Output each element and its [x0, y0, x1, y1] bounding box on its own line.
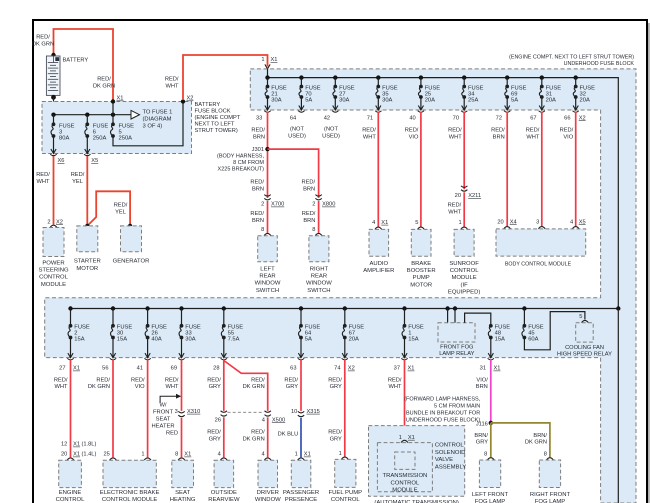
svg-text:1: 1 [141, 452, 144, 458]
connector X500 link line [228, 411, 265, 413]
svg-text:31: 31 [480, 366, 486, 372]
svg-text:X1: X1 [304, 452, 311, 458]
wire fuse 48 to exit [490, 338, 492, 357]
svg-text:X1: X1 [73, 442, 80, 448]
callout arrow W/ FRONT SEAT HEATER [160, 394, 181, 403]
svg-text:RED/BRN: RED/BRN [251, 128, 265, 141]
svg-text:RED/GRY: RED/GRY [328, 430, 342, 443]
connector entry right rear window switch [315, 233, 322, 235]
connector entry outside rearview mirror [220, 458, 227, 460]
connector entry left front fog lamp [487, 458, 494, 460]
svg-text:33: 33 [256, 115, 262, 121]
svg-text:RED/WHT: RED/WHT [54, 378, 68, 391]
svg-text:27: 27 [59, 366, 65, 372]
junction fuse 6 top on bus [85, 113, 89, 117]
svg-text:X1: X1 [184, 452, 191, 458]
svg-text:X5: X5 [91, 158, 98, 164]
fuse F33b (FUSE 33 30A) [179, 324, 183, 340]
wire X2 to underhood fuse block X1 (RED/WHT) [183, 55, 268, 100]
svg-text:X700: X700 [271, 202, 284, 208]
svg-text:RED/WHT: RED/WHT [448, 128, 462, 141]
svg-text:POWERSTEERINGCONTROLMODULE: POWERSTEERINGCONTROLMODULE [38, 260, 69, 288]
wire starter to generator branch (RED/YEL) [87, 191, 130, 226]
svg-text:70: 70 [453, 115, 459, 121]
wire pin 71 to audio amplifier (RED/WHT) [377, 112, 379, 227]
svg-text:20: 20 [61, 452, 67, 458]
connector entry right front fog lamp [547, 458, 554, 460]
svg-text:RED/VIO: RED/VIO [560, 128, 574, 141]
fuse F6 (FUSE 6 250A) [85, 122, 89, 138]
svg-text:FUEL PUMPCONTROLMODULE: FUEL PUMPCONTROLMODULE [329, 490, 363, 503]
svg-text:66: 66 [564, 115, 570, 121]
svg-text:71: 71 [367, 115, 373, 121]
svg-text:RED/WHT: RED/WHT [36, 172, 50, 185]
fuse F27 (FUSE 27 30A) [333, 85, 337, 99]
junction fuse 32 on top bus [574, 75, 578, 79]
fuse F45 (FUSE 45 60A) [522, 324, 526, 340]
connector entry fuel pump control module [341, 457, 348, 459]
svg-text:X211: X211 [468, 193, 481, 199]
right front fog lamp [539, 460, 560, 488]
svg-text:20: 20 [497, 219, 503, 225]
wire top bus of underhood fuse block [268, 78, 619, 309]
junction bottom bus to right band riser [616, 306, 620, 310]
wire pin 28 to X500 pin 26 (RED/GRY) [223, 359, 225, 411]
svg-text:(NOTUSED): (NOTUSED) [288, 127, 306, 140]
svg-text:PASSENGERPRESENCEMODULE: PASSENGERPRESENCEMODULE [283, 490, 319, 503]
junction fuse 33 on bottom bus [179, 306, 183, 310]
junction X1 on block edge [111, 99, 115, 103]
in-line connector X800 [315, 195, 321, 200]
svg-text:X310: X310 [187, 409, 200, 415]
svg-text:X2: X2 [56, 219, 63, 225]
wire X310 to seat heating module (RED) [181, 418, 183, 458]
wire X800 to right rear window switch (RED/BRN) [318, 201, 320, 233]
junction fuse 31 on top bus [540, 75, 544, 79]
svg-text:J116: J116 [476, 421, 488, 427]
svg-text:X1: X1 [73, 452, 80, 458]
wire fuse 5 to X2 (internal) [113, 102, 183, 146]
svg-text:X1: X1 [408, 366, 415, 372]
in-line connector X700 [264, 195, 270, 200]
connector entry sunroof control module [461, 227, 468, 229]
svg-text:RED/WHT: RED/WHT [526, 128, 540, 141]
wire fuse 25 leads [420, 78, 422, 87]
svg-text:RED/YEL: RED/YEL [114, 203, 128, 216]
connector exit under bottom fuse 26 [144, 353, 150, 360]
svg-text:RED/WHT: RED/WHT [165, 77, 179, 90]
svg-text:J301: J301 [252, 147, 264, 153]
battery fuse block enclosure [42, 102, 192, 154]
engine control module [59, 460, 82, 487]
connector exit under fuse 35 [375, 106, 381, 113]
svg-text:2: 2 [47, 219, 50, 225]
junction J301 [265, 147, 269, 151]
svg-text:X6: X6 [58, 158, 65, 164]
svg-text:X1: X1 [381, 220, 388, 226]
wire X5 to starter motor (RED/YEL) [86, 156, 88, 226]
svg-text:RED/YEL: RED/YEL [71, 172, 85, 185]
svg-text:STARTERMOTOR: STARTERMOTOR [74, 259, 101, 272]
wire fuse 32 leads [575, 78, 577, 87]
wire fuse 30 leads (bottom block) [112, 309, 114, 326]
wire fuse 31 leads [541, 78, 543, 87]
svg-text:1: 1 [459, 220, 462, 226]
svg-text:74: 74 [334, 366, 340, 372]
wire pin 37 to transmission control module (RED/WHT) [404, 359, 406, 440]
svg-text:5: 5 [579, 314, 582, 320]
wire X315 to passenger presence module (DK BLU) [300, 418, 302, 458]
wire pin 66 to body control module (RED/VIO) [575, 112, 577, 227]
fuse F67b (FUSE 67 20A) [342, 324, 346, 340]
control solenoid valve assembly [369, 426, 465, 497]
connector entry EBCM pin 1 [144, 458, 151, 460]
svg-text:4: 4 [372, 220, 375, 226]
wire pin 31 to J116 (VIO/BRN) [490, 359, 492, 423]
battery B1 [46, 53, 72, 100]
wire pin 63 to X315 (RED/GRY) [300, 359, 302, 411]
connector exit under fuse 48 [488, 353, 494, 360]
svg-text:DK BLU: DK BLU [278, 432, 299, 438]
fuse F32 (FUSE 32 20A) [573, 85, 577, 99]
wire X700 to left rear window switch (RED/BRN) [267, 201, 269, 233]
svg-text:RED/BRN: RED/BRN [250, 180, 264, 193]
junction fuse 25 on top bus [419, 75, 423, 79]
connector exit under fuse 31 [539, 106, 545, 113]
wire fuse 64 leads (bottom block) [300, 309, 302, 326]
fuse F26b (FUSE 26 40A) [145, 324, 149, 340]
wire fuse 3 leads [53, 115, 55, 125]
wire fuse 69 leads [506, 78, 508, 87]
svg-text:8: 8 [484, 451, 487, 457]
connector entry left rear window switch [264, 233, 271, 235]
svg-text:(NOTUSED): (NOTUSED) [322, 127, 340, 140]
svg-text:BRN/DK GRN: BRN/DK GRN [525, 433, 548, 446]
junction battery drop on bus [51, 113, 55, 117]
connector entry seat heating module [178, 458, 185, 460]
svg-text:GENERATOR: GENERATOR [113, 259, 150, 265]
wire fuse 21 leads [267, 78, 269, 87]
connector exit under bottom fuse 64 [298, 353, 304, 360]
in-line connector X500 pin 4 [265, 411, 271, 416]
junction fuse 1 on bottom bus [402, 306, 406, 310]
electronic brake control module [103, 460, 156, 487]
svg-text:(1.8L): (1.8L) [82, 442, 97, 448]
fuse F31 (FUSE 31 20A) [539, 85, 543, 99]
generator [121, 226, 142, 252]
svg-text:X2: X2 [579, 115, 586, 121]
connector exit under bottom fuse 55 [221, 353, 227, 360]
svg-text:67: 67 [530, 115, 536, 121]
seat heating module [172, 460, 194, 487]
svg-text:3: 3 [536, 219, 539, 225]
svg-text:40: 40 [409, 115, 415, 121]
svg-text:RED/WHT: RED/WHT [388, 378, 402, 391]
junction fuse 34 on top bus [462, 75, 466, 79]
connector exit under bottom fuse 1 [401, 353, 407, 360]
wire front fog lamp relay output to fuse 48 [465, 313, 491, 326]
svg-text:RIGHTREARWINDOWSWITCH: RIGHTREARWINDOWSWITCH [306, 266, 332, 294]
svg-text:(BODY HARNESS,8 CM FROMX225 BR: (BODY HARNESS,8 CM FROMX225 BREAKOUT) [217, 154, 264, 173]
wire pin 28 branch to X500 pin 4 (RED/DK GRN) [224, 361, 268, 411]
connector exit under fuse 25 [418, 106, 424, 113]
junction front fog relay wire 2 on bus [453, 306, 457, 310]
svg-text:RED/GRY: RED/GRY [207, 378, 221, 391]
wire pin 56 to electronic brake control module (RED/DK GRN) [112, 359, 114, 457]
wire fuse 26 leads (bottom block) [147, 309, 149, 326]
wire bus to front fog lamp relay pin b [454, 309, 456, 323]
junction fuse 69 on top bus [505, 75, 509, 79]
svg-text:RED/VIO: RED/VIO [405, 128, 419, 141]
junction fuse 30 on bottom bus [111, 306, 115, 310]
svg-text:UNDERHOOD FUSE BLOCK: UNDERHOOD FUSE BLOCK [564, 61, 635, 67]
svg-text:20: 20 [455, 193, 461, 199]
wire X500 to outside rearview mirror (RED/GRY) [223, 417, 225, 457]
fuse F70 (FUSE 70 5A) [299, 85, 303, 99]
svg-text:(1.4L): (1.4L) [82, 452, 97, 458]
junction at starter motor terminal [85, 224, 89, 228]
cooling fan high speed relay [576, 323, 594, 342]
wire battery negative into battery fuse block [53, 97, 55, 115]
wire J301 branch to X800 (RED/BRN) [268, 149, 319, 198]
junction at generator terminal [128, 224, 132, 228]
svg-text:ENGINECONTROLMODULE: ENGINECONTROLMODULE [56, 490, 86, 503]
wire J116 to left front fog lamp (BRN/GRY) [490, 423, 492, 457]
junction J116 [489, 421, 493, 425]
wire pin 40 to brake booster pump motor (RED/VIO) [420, 112, 422, 227]
svg-text:BATTERY: BATTERY [63, 58, 89, 64]
svg-text:RED/WHT: RED/WHT [165, 378, 179, 391]
svg-text:25: 25 [103, 452, 109, 458]
svg-text:RED/GRY: RED/GRY [284, 378, 298, 391]
front fog lamp relay [438, 323, 475, 342]
svg-text:RED/BRN: RED/BRN [491, 128, 505, 141]
svg-text:1: 1 [339, 451, 342, 457]
junction fuse 45 on bus [522, 306, 526, 310]
connector exit under bottom fuse 30 [110, 353, 116, 360]
svg-text:DRIVERWINDOWSWITCH: DRIVERWINDOWSWITCH [255, 490, 281, 503]
svg-text:RED/DK GRN: RED/DK GRN [32, 35, 54, 48]
svg-text:RED/GRY: RED/GRY [328, 378, 342, 391]
svg-text:RED/BRN: RED/BRN [302, 211, 316, 224]
svg-text:56: 56 [102, 366, 108, 372]
underhood fuse block enclosure (top band, right band, bottom band) [45, 69, 636, 503]
svg-text:5: 5 [415, 220, 418, 226]
svg-text:X1: X1 [494, 366, 501, 372]
wire pin 70 to X211 (RED/WHT) [463, 112, 465, 190]
connector exit under fuse 32 [573, 106, 579, 113]
left front fog lamp [479, 460, 500, 488]
svg-text:OUTSIDEREARVIEWMIRROR: OUTSIDEREARVIEWMIRROR [208, 490, 240, 503]
svg-text:SEATHEATINGMODULE: SEATHEATINGMODULE [170, 490, 196, 503]
svg-text:1: 1 [295, 452, 298, 458]
connector exit under bottom fuse 2 [67, 353, 73, 360]
svg-text:W/FRONTSEATHEATER: W/FRONTSEATHEATER [151, 403, 174, 430]
sunroof control module [454, 229, 474, 256]
svg-text:BATTERYFUSE BLOCK(ENGINE COMPT: BATTERYFUSE BLOCK(ENGINE COMPTNEXT TO LE… [195, 102, 241, 134]
svg-text:BRAKEBOOSTERPUMPMOTOR: BRAKEBOOSTERPUMPMOTOR [407, 261, 436, 289]
junction fuse 26 on bottom bus [145, 306, 149, 310]
wire pin 74 to fuel pump control module (RED/GRY) [344, 359, 346, 457]
fuse F34 (FUSE 34 25A) [462, 85, 466, 99]
svg-text:ELECTRONIC BRAKECONTROL MODULE: ELECTRONIC BRAKECONTROL MODULE [100, 490, 160, 503]
right rear window switch [309, 236, 329, 262]
connector exit under bottom fuse 67 [342, 353, 348, 360]
wire pin 69 to X310 (RED/WHT) [181, 359, 183, 411]
fuse F3 (FUSE 3 80A) [51, 122, 55, 138]
svg-text:37: 37 [394, 366, 400, 372]
wire battery positive to node X1 (RED/DK GRN) [54, 29, 114, 101]
svg-text:VIO/BRN: VIO/BRN [476, 378, 488, 391]
svg-text:RED/DK GRN: RED/DK GRN [243, 378, 266, 391]
wire X1 entry to bus [267, 69, 269, 78]
svg-text:2: 2 [261, 202, 264, 208]
fuse F5 (FUSE 5 250A) [111, 122, 115, 138]
connector exit X6 (battery fuse block) [50, 149, 56, 156]
svg-text:(FORWARD LAMP HARNESS,5 CM FRO: (FORWARD LAMP HARNESS,5 CM FROM MAINBUND… [404, 396, 480, 423]
svg-text:X1: X1 [117, 96, 124, 102]
audio amplifier [369, 229, 389, 256]
connector entry transmission control module [401, 440, 408, 442]
fuel pump control module [335, 459, 356, 487]
svg-text:RED/WHT: RED/WHT [448, 203, 462, 216]
in-line connector X500 pin 26 [221, 411, 227, 416]
wire fuse 67 leads (bottom block) [344, 309, 346, 326]
junction fuse 27 on top bus [333, 75, 337, 79]
svg-text:(ENGINE COMPT. NEXT TO LEFT ST: (ENGINE COMPT. NEXT TO LEFT STRUT TOWER) [509, 55, 634, 61]
connector exit under bottom fuse 33 [178, 353, 184, 360]
svg-text:X5: X5 [579, 219, 586, 225]
connector exit under fuse 70 [298, 106, 304, 113]
wire fuse 35 leads [377, 78, 379, 87]
wire fuse 1 leads (bottom block) [404, 309, 406, 326]
svg-text:4: 4 [262, 452, 265, 458]
svg-text:AUDIOAMPLIFIER: AUDIOAMPLIFIER [363, 261, 394, 274]
svg-text:RED/BRN: RED/BRN [302, 180, 316, 193]
wire fuse 33 leads (bottom block) [181, 309, 183, 326]
connector entry brake booster pump motor [418, 227, 425, 229]
junction front fog relay wire 1 on bus [445, 306, 449, 310]
fuse F2b (FUSE 2 15A) [68, 324, 72, 340]
connector entry passenger presence module [298, 458, 305, 460]
svg-text:42: 42 [324, 115, 330, 121]
connector exit under fuse 27 [332, 106, 338, 113]
fuse F55b (FUSE 55 7.5A) [221, 324, 225, 340]
svg-text:41: 41 [137, 366, 143, 372]
svg-text:28: 28 [213, 366, 219, 372]
wire X1 drop [112, 102, 114, 115]
svg-text:8: 8 [544, 451, 547, 457]
power steering control module [43, 228, 64, 257]
svg-text:72: 72 [496, 115, 502, 121]
svg-text:RED/DK GRN: RED/DK GRN [243, 430, 266, 443]
connector exit X5 (battery fuse block) [84, 149, 90, 156]
svg-text:10: 10 [291, 409, 297, 415]
wire X211 to sunroof control module (RED/WHT) [463, 192, 465, 226]
wire fuse 2 leads (bottom block) [70, 309, 72, 326]
connector exit under fuse 34 [461, 106, 467, 113]
svg-text:2: 2 [312, 202, 315, 208]
passenger presence module [291, 460, 311, 487]
junction fuse 55 on bottom bus [222, 306, 226, 310]
svg-text:RED/DK GRN: RED/DK GRN [88, 378, 111, 391]
off-page arrow TO FUSE 1 [131, 110, 140, 119]
connector entry audio amplifier [375, 227, 382, 229]
wire pin 33 to J301 (RED/BRN) [267, 112, 269, 199]
transmission control module [377, 443, 432, 492]
wire bottom bus of underhood fuse block [71, 308, 619, 310]
junction X1 drop on bus [111, 113, 115, 117]
connector entry X1 into underhood fuse block [265, 64, 270, 69]
wire pin 67 to body control module (RED/WHT) [541, 112, 543, 227]
svg-text:BRN/GRY: BRN/GRY [474, 433, 488, 446]
left rear window switch [258, 236, 278, 262]
in-line connector X315 [298, 411, 304, 416]
svg-text:FRONT FOGLAMP RELAY: FRONT FOGLAMP RELAY [439, 344, 474, 357]
svg-text:8: 8 [312, 227, 315, 233]
svg-text:X1: X1 [408, 435, 415, 441]
svg-text:8: 8 [261, 227, 264, 233]
fuse F69 (FUSE 69 5A) [505, 85, 509, 99]
fuse F1b (FUSE 1 15A) [402, 324, 406, 340]
fuse F30b (FUSE 30 15A) [111, 324, 115, 340]
svg-text:LEFTREARWINDOWSWITCH: LEFTREARWINDOWSWITCH [255, 266, 281, 294]
body control module [496, 229, 586, 256]
junction fuse 35 on top bus [376, 75, 380, 79]
svg-text:63: 63 [290, 366, 296, 372]
svg-text:X315: X315 [307, 409, 320, 415]
svg-text:4: 4 [570, 219, 573, 225]
wire fuse 34 leads [463, 78, 465, 87]
connector exit under fuse 21 [264, 106, 270, 113]
connector entry cooling fan relay [582, 320, 589, 322]
svg-text:X4: X4 [510, 219, 517, 225]
fuse F25 (FUSE 25 20A) [418, 85, 422, 99]
connector entries body control module [504, 227, 579, 229]
svg-text:X1: X1 [73, 366, 80, 372]
svg-text:SUNROOFCONTROLMODULE(IFEQUIPPE: SUNROOFCONTROLMODULE(IFEQUIPPED) [448, 261, 480, 296]
outside rearview mirror [214, 460, 234, 487]
svg-text:12: 12 [61, 442, 67, 448]
wire bus to front fog lamp relay pin a [447, 309, 449, 323]
svg-text:X1: X1 [271, 57, 278, 63]
wire fuse 6 leads [86, 115, 88, 125]
connector entry driver window switch [264, 458, 271, 460]
fuse F21 (FUSE 21 30A) [265, 85, 269, 99]
svg-text:RED/BRN: RED/BRN [250, 211, 264, 224]
connector entry engine control module [67, 458, 74, 460]
svg-text:RED: RED [166, 430, 178, 436]
wire fuse 45 to cooling fan high speed relay pin 5 [524, 312, 585, 350]
connector entry EBCM pin 25 [110, 458, 117, 460]
svg-text:RED/GRY: RED/GRY [207, 430, 221, 443]
svg-text:1: 1 [399, 435, 402, 441]
brake booster pump motor [411, 229, 431, 256]
svg-text:4: 4 [218, 452, 221, 458]
junction fuse 21 on top bus [265, 75, 269, 79]
svg-text:BODY CONTROL MODULE: BODY CONTROL MODULE [505, 262, 572, 268]
in-line connector X211 [461, 186, 467, 191]
wire fuse 27 leads [334, 78, 336, 87]
svg-text:1: 1 [261, 57, 264, 63]
svg-text:RIGHT FRONTFOG LAMP: RIGHT FRONTFOG LAMP [530, 492, 571, 503]
junction X2 on block edge [181, 99, 185, 103]
svg-text:LEFT FRONTFOG LAMP: LEFT FRONTFOG LAMP [472, 492, 509, 503]
wire internal bus of battery fuse block [54, 114, 131, 116]
svg-text:64: 64 [290, 115, 296, 121]
svg-text:X2: X2 [187, 96, 194, 102]
svg-text:RED/DK GRN: RED/DK GRN [93, 77, 115, 90]
